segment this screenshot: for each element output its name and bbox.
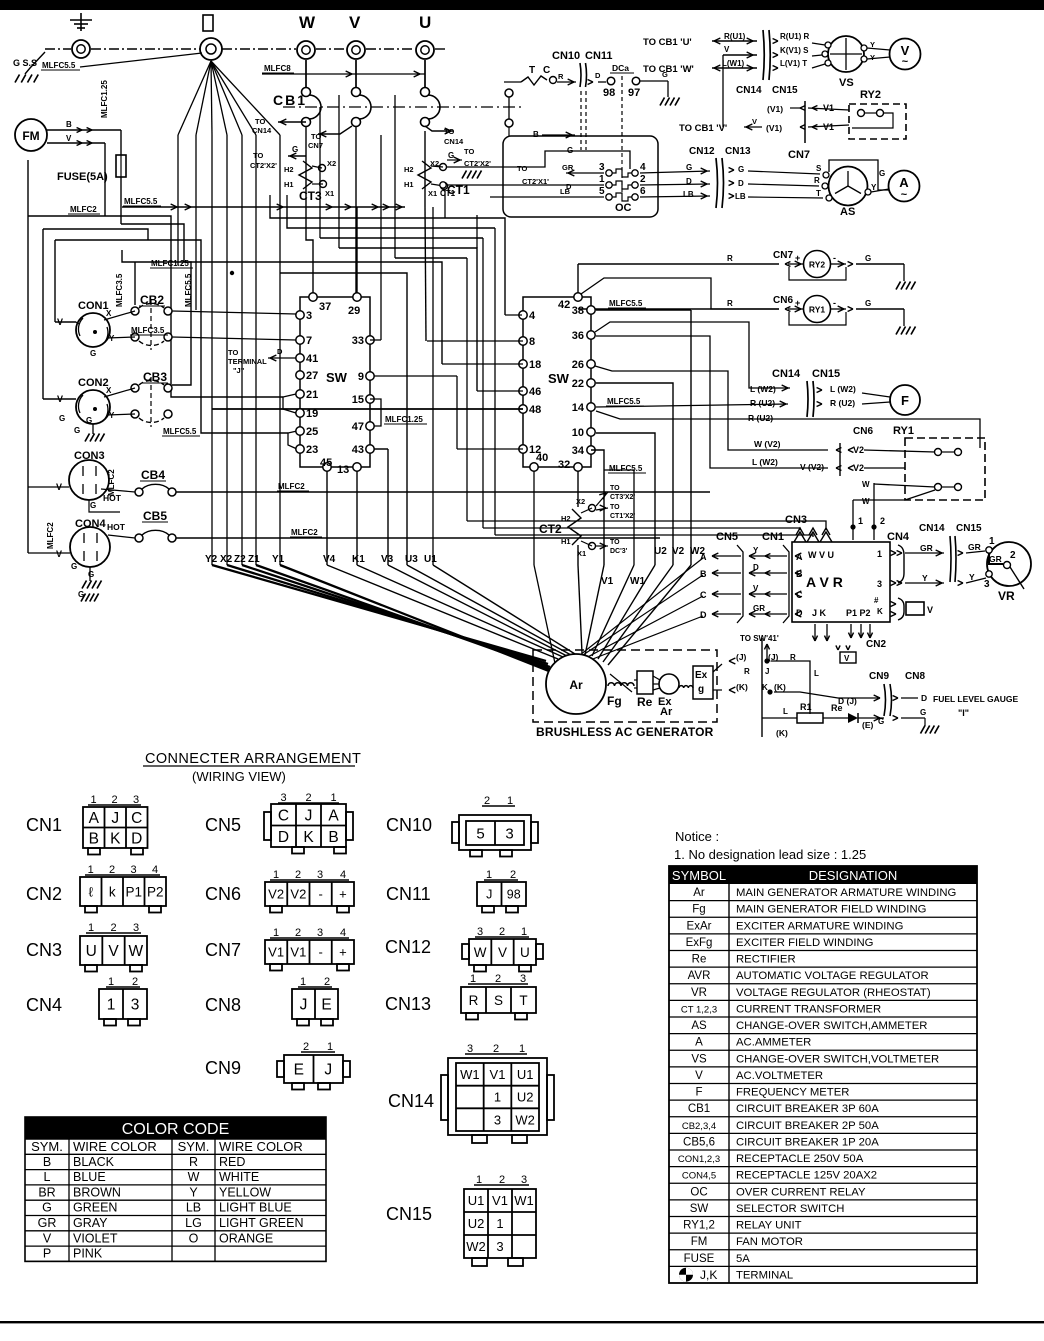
svg-text:V1: V1 <box>268 945 284 960</box>
svg-text:P1 P2: P1 P2 <box>846 608 871 618</box>
svg-text:TERMINAL: TERMINAL <box>228 357 267 366</box>
svg-text:15: 15 <box>352 394 364 406</box>
svg-text:D: D <box>921 693 927 703</box>
svg-text:3: 3 <box>877 579 882 589</box>
svg-text:CN15: CN15 <box>386 1204 432 1224</box>
svg-text:SW: SW <box>326 370 348 385</box>
svg-text:E: E <box>321 997 331 1014</box>
svg-text:G S.S: G S.S <box>13 58 37 68</box>
svg-text:Notice :: Notice : <box>675 829 719 844</box>
svg-text:RY1: RY1 <box>809 305 825 315</box>
svg-text:21: 21 <box>306 389 318 401</box>
svg-text:S: S <box>494 993 503 1008</box>
svg-text:J: J <box>111 810 119 827</box>
svg-text:D: D <box>738 179 744 188</box>
svg-text:B: B <box>66 120 72 129</box>
svg-text:1: 1 <box>507 795 513 807</box>
svg-text:ORANGE: ORANGE <box>219 1231 273 1245</box>
svg-text:2: 2 <box>295 869 301 881</box>
svg-text:DCa: DCa <box>612 63 629 73</box>
svg-text:U1: U1 <box>517 1067 534 1082</box>
svg-text:B: B <box>533 130 539 139</box>
svg-text:V: V <box>108 943 119 960</box>
svg-text:1. No designation lead size :: 1. No designation lead size : 1.25 <box>674 847 866 862</box>
svg-text:Y: Y <box>109 334 115 343</box>
svg-text:RY2: RY2 <box>860 89 881 101</box>
svg-text:Re: Re <box>692 954 707 966</box>
svg-text:TO: TO <box>610 485 620 492</box>
svg-text:CT1'X2': CT1'X2' <box>610 513 635 520</box>
svg-text:2: 2 <box>132 976 138 988</box>
svg-text:O: O <box>189 1231 199 1245</box>
svg-text:P2: P2 <box>147 884 164 899</box>
svg-text:B: B <box>89 830 99 847</box>
svg-text:R: R <box>469 993 479 1008</box>
svg-text:CN2: CN2 <box>866 639 886 650</box>
svg-text:2: 2 <box>484 795 490 807</box>
svg-text:1: 1 <box>273 869 279 881</box>
svg-text:3: 3 <box>133 922 139 934</box>
svg-text:TO CB1 'V': TO CB1 'V' <box>679 123 727 134</box>
svg-text:U2: U2 <box>468 1216 485 1231</box>
svg-text:W1: W1 <box>514 1193 534 1208</box>
svg-text:41: 41 <box>306 353 318 365</box>
svg-text:CON4: CON4 <box>75 518 106 530</box>
svg-text:3: 3 <box>494 1112 501 1127</box>
svg-text:R: R <box>744 667 750 676</box>
svg-text:R: R <box>558 72 564 81</box>
svg-text:V (V2): V (V2) <box>800 462 824 472</box>
svg-text:GR: GR <box>968 542 981 552</box>
svg-text:2: 2 <box>295 927 301 939</box>
svg-text:BRUSHLESS AC GENERATOR: BRUSHLESS AC GENERATOR <box>536 725 714 739</box>
svg-text:GR: GR <box>989 554 1002 564</box>
svg-text:L(W1): L(W1) <box>722 59 745 68</box>
svg-text:CB5,6: CB5,6 <box>683 1136 715 1148</box>
svg-text:D: D <box>753 563 759 572</box>
svg-text:CON2: CON2 <box>78 377 109 389</box>
svg-text:27: 27 <box>306 370 318 382</box>
svg-text:MLFC2: MLFC2 <box>107 469 116 496</box>
svg-text:J K: J K <box>812 608 827 618</box>
svg-text:G: G <box>738 165 744 174</box>
svg-text:34: 34 <box>572 445 585 457</box>
svg-text:2: 2 <box>303 1041 309 1053</box>
svg-text:MLFC1.25: MLFC1.25 <box>151 259 189 268</box>
svg-text:Ar: Ar <box>693 887 705 899</box>
svg-text:G: G <box>292 145 298 154</box>
svg-text:CB2: CB2 <box>140 293 164 307</box>
svg-text:MLFC8: MLFC8 <box>264 64 291 73</box>
svg-text:T: T <box>816 189 821 198</box>
svg-text:RECTIFIER: RECTIFIER <box>736 954 796 966</box>
svg-text:TO: TO <box>610 539 620 546</box>
svg-text:+: + <box>339 945 347 960</box>
svg-text:40: 40 <box>536 452 548 464</box>
svg-text:1: 1 <box>88 922 94 934</box>
svg-text:A: A <box>796 552 803 562</box>
svg-text:48: 48 <box>529 404 541 416</box>
svg-text:MLFC2: MLFC2 <box>70 205 97 214</box>
svg-text:Re: Re <box>637 695 653 709</box>
svg-text:37: 37 <box>319 301 331 313</box>
svg-text:B: B <box>43 1155 51 1169</box>
svg-text:U1: U1 <box>468 1193 485 1208</box>
svg-text:CN5: CN5 <box>205 815 241 835</box>
svg-text:G: G <box>71 562 77 571</box>
svg-text:CT1: CT1 <box>440 189 456 198</box>
svg-text:V: V <box>695 1070 703 1082</box>
svg-text:G: G <box>865 299 871 308</box>
svg-text:R: R <box>814 176 820 185</box>
svg-text:D: D <box>278 829 289 846</box>
svg-text:L: L <box>44 1170 51 1184</box>
svg-text:LB: LB <box>186 1201 201 1215</box>
svg-text:1: 1 <box>470 973 476 985</box>
svg-text:RELAY UNIT: RELAY UNIT <box>736 1220 802 1232</box>
svg-text:CN12: CN12 <box>689 146 715 157</box>
svg-text:98: 98 <box>507 888 521 902</box>
svg-text:CON3: CON3 <box>74 450 105 462</box>
svg-text:10: 10 <box>572 427 584 439</box>
svg-text:GR: GR <box>753 604 765 613</box>
svg-text:W2: W2 <box>466 1239 486 1254</box>
svg-text:HOT: HOT <box>107 522 126 532</box>
svg-text:R: R <box>727 254 733 263</box>
svg-text:K: K <box>762 683 768 692</box>
svg-text:PINK: PINK <box>73 1247 103 1261</box>
svg-text:L: L <box>783 707 788 716</box>
svg-text:TO: TO <box>253 151 263 160</box>
svg-text:2: 2 <box>109 864 115 876</box>
svg-text:GR: GR <box>562 163 574 172</box>
svg-text:2: 2 <box>499 926 505 938</box>
svg-text:ExAr: ExAr <box>687 920 712 932</box>
svg-text:CN8: CN8 <box>905 671 925 682</box>
svg-text:TERMINAL: TERMINAL <box>736 1269 793 1281</box>
svg-text:LG: LG <box>185 1216 202 1230</box>
svg-text:CT3: CT3 <box>299 189 322 203</box>
svg-text:2: 2 <box>305 792 311 804</box>
svg-text:R(U1): R(U1) <box>724 32 746 41</box>
svg-text:VS: VS <box>839 77 854 89</box>
svg-text:P: P <box>43 1247 51 1261</box>
svg-text:V2: V2 <box>290 887 306 902</box>
svg-text:G: G <box>88 570 94 579</box>
svg-text:V: V <box>753 584 759 593</box>
svg-text:MLFC2: MLFC2 <box>278 482 305 491</box>
svg-text:2: 2 <box>493 1043 499 1055</box>
svg-text:GR: GR <box>38 1216 57 1230</box>
svg-text:H2: H2 <box>284 165 294 174</box>
svg-text:CN11: CN11 <box>386 884 431 904</box>
svg-text:G: G <box>90 349 96 358</box>
svg-text:W: W <box>862 497 870 506</box>
svg-text:2: 2 <box>110 922 116 934</box>
svg-text:CN7: CN7 <box>773 250 793 261</box>
svg-text:CN15: CN15 <box>956 523 982 534</box>
svg-text:X2: X2 <box>576 497 585 506</box>
svg-text:J: J <box>765 667 769 676</box>
svg-text:X2: X2 <box>430 159 439 168</box>
svg-text:CN14: CN14 <box>736 85 762 96</box>
svg-text:Z1: Z1 <box>248 554 260 565</box>
svg-text:V1: V1 <box>823 103 834 113</box>
svg-text:X: X <box>106 309 112 318</box>
svg-text:BLACK: BLACK <box>73 1155 115 1169</box>
svg-text:W: W <box>474 945 487 960</box>
svg-text:4: 4 <box>529 310 536 322</box>
svg-text:3: 3 <box>133 794 139 806</box>
svg-text:23: 23 <box>306 444 318 456</box>
svg-text:W V U: W V U <box>808 550 834 560</box>
svg-text:V1: V1 <box>490 1067 506 1082</box>
svg-text:V: V <box>57 394 63 404</box>
svg-text:1: 1 <box>107 997 116 1014</box>
svg-text:CN15: CN15 <box>772 85 798 96</box>
svg-text:#: # <box>874 596 879 605</box>
svg-text:K: K <box>877 607 883 616</box>
svg-text:CN14: CN14 <box>444 137 464 146</box>
svg-text:MLFC5.5: MLFC5.5 <box>124 197 158 206</box>
svg-text:T: T <box>519 993 527 1008</box>
svg-text:X2: X2 <box>220 554 233 565</box>
svg-text:CN3: CN3 <box>26 940 62 960</box>
svg-text:CT3'X2': CT3'X2' <box>610 494 635 501</box>
svg-text:Ar: Ar <box>660 706 673 718</box>
svg-text:CON1: CON1 <box>78 300 109 312</box>
svg-text:P1: P1 <box>125 884 142 899</box>
svg-text:L(V1) T: L(V1) T <box>780 59 807 68</box>
svg-text:OC: OC <box>615 202 632 214</box>
svg-text:4: 4 <box>340 869 346 881</box>
svg-text:MLFC1.25: MLFC1.25 <box>385 415 423 424</box>
svg-text:C: C <box>543 65 550 76</box>
svg-text:2: 2 <box>324 976 330 988</box>
svg-text:Ar: Ar <box>569 678 583 692</box>
svg-text:V2: V2 <box>672 546 685 557</box>
svg-text:L (W2): L (W2) <box>750 384 776 394</box>
svg-text:J,K: J,K <box>700 1268 717 1282</box>
svg-text:J: J <box>324 1062 332 1079</box>
svg-text:OC: OC <box>690 1186 707 1198</box>
svg-text:L: L <box>814 669 819 678</box>
svg-text:G: G <box>879 169 885 178</box>
svg-text:D: D <box>700 610 707 620</box>
svg-text:CIRCUIT BREAKER 2P 50A: CIRCUIT BREAKER 2P 50A <box>736 1120 879 1132</box>
svg-text:CN11: CN11 <box>585 50 613 62</box>
svg-text:Y1: Y1 <box>272 554 285 565</box>
svg-text:CN9: CN9 <box>869 671 889 682</box>
svg-text:W: W <box>862 480 870 489</box>
svg-text:3: 3 <box>306 310 312 322</box>
svg-text:K(V1) S: K(V1) S <box>780 46 809 55</box>
svg-text:(K): (K) <box>776 728 788 738</box>
svg-text:B: B <box>796 569 803 579</box>
svg-text:A: A <box>89 810 100 827</box>
svg-text:V1: V1 <box>601 576 614 587</box>
svg-text:22: 22 <box>572 378 584 390</box>
svg-text:3: 3 <box>477 926 483 938</box>
svg-text:Re: Re <box>831 703 843 713</box>
svg-text:A V R: A V R <box>806 574 843 590</box>
svg-text:FUSE: FUSE <box>684 1253 715 1265</box>
svg-text:W: W <box>129 943 144 960</box>
svg-text:MLFC1.25: MLFC1.25 <box>100 80 109 118</box>
svg-text:G: G <box>920 708 926 717</box>
svg-text:2: 2 <box>640 174 646 185</box>
svg-text:CN14: CN14 <box>252 126 272 135</box>
svg-text:(J): (J) <box>736 652 747 662</box>
svg-text:U: U <box>86 943 97 960</box>
svg-text:3: 3 <box>130 864 136 876</box>
svg-text:VOLTAGE REGULATOR (RHEOSTAT): VOLTAGE REGULATOR (RHEOSTAT) <box>736 987 931 999</box>
svg-text:SYMBOL: SYMBOL <box>672 868 726 883</box>
svg-text:CN5: CN5 <box>716 531 738 543</box>
svg-text:k: k <box>109 884 116 899</box>
svg-text:C: C <box>700 590 707 600</box>
svg-text:RECEPTACLE 125V 20AX2: RECEPTACLE 125V 20AX2 <box>736 1170 877 1182</box>
svg-text:CN12: CN12 <box>385 937 431 957</box>
svg-text:W1: W1 <box>460 1067 480 1082</box>
svg-text:BR: BR <box>38 1185 55 1199</box>
svg-text:1: 1 <box>521 926 527 938</box>
svg-text:MLFC5.5: MLFC5.5 <box>609 299 643 308</box>
svg-text:C: C <box>278 807 289 824</box>
svg-text:CN4: CN4 <box>26 995 62 1015</box>
svg-text:E: E <box>294 1062 304 1079</box>
svg-text:Y: Y <box>922 573 928 583</box>
svg-text:5: 5 <box>599 186 605 197</box>
svg-text:Y: Y <box>870 40 875 49</box>
svg-text:VR: VR <box>691 987 707 999</box>
svg-text:FM: FM <box>22 129 39 143</box>
svg-text:Z2: Z2 <box>234 554 246 565</box>
svg-text:1: 1 <box>519 1043 525 1055</box>
svg-text:K: K <box>110 830 121 847</box>
svg-text:CHANGE-OVER SWITCH,VOLTMETER: CHANGE-OVER SWITCH,VOLTMETER <box>736 1053 939 1065</box>
svg-text:(K): (K) <box>774 682 786 692</box>
svg-text:43: 43 <box>352 444 364 456</box>
svg-text:V4: V4 <box>323 554 336 565</box>
svg-text:1: 1 <box>273 927 279 939</box>
svg-text:COLOR CODE: COLOR CODE <box>122 1121 230 1138</box>
svg-text:MAIN GENERATOR ARMATURE WINDIN: MAIN GENERATOR ARMATURE WINDING <box>736 887 956 899</box>
svg-text:CT 1,2,3: CT 1,2,3 <box>681 1004 717 1015</box>
svg-text:WIRE COLOR: WIRE COLOR <box>219 1139 303 1154</box>
svg-text:CN7: CN7 <box>788 149 810 161</box>
svg-text:26: 26 <box>572 359 584 371</box>
svg-text:LB: LB <box>560 187 571 196</box>
svg-text:2: 2 <box>510 869 516 881</box>
svg-text:-: - <box>318 887 322 902</box>
svg-text:S: S <box>816 164 822 173</box>
svg-text:SELECTOR SWITCH: SELECTOR SWITCH <box>736 1203 844 1215</box>
svg-text:4: 4 <box>152 864 158 876</box>
svg-text:Y: Y <box>109 411 115 420</box>
svg-text:+: + <box>339 887 347 902</box>
svg-text:G: G <box>59 414 65 423</box>
svg-text:DESIGNATION: DESIGNATION <box>809 868 898 883</box>
svg-text:U2: U2 <box>517 1090 534 1105</box>
svg-text:AC.AMMETER: AC.AMMETER <box>736 1037 811 1049</box>
svg-text:AS: AS <box>840 206 855 218</box>
svg-text:J: J <box>305 807 313 824</box>
svg-text:WIRE COLOR: WIRE COLOR <box>73 1139 157 1154</box>
svg-text:1: 1 <box>476 1174 482 1186</box>
svg-text:32: 32 <box>558 459 570 471</box>
svg-text:SYM.: SYM. <box>178 1139 210 1154</box>
svg-text:SW: SW <box>690 1203 709 1215</box>
svg-text:G: G <box>90 501 96 510</box>
svg-text:V: V <box>43 1231 52 1245</box>
svg-text:R: R <box>189 1155 198 1169</box>
svg-text:(E): (E) <box>862 720 874 730</box>
svg-text:G: G <box>42 1201 52 1215</box>
svg-text:V: V <box>57 317 63 327</box>
svg-text:CN4: CN4 <box>887 531 910 543</box>
svg-text:CT2'X2': CT2'X2' <box>250 161 277 170</box>
svg-text:SYM.: SYM. <box>31 1139 63 1154</box>
svg-text:A: A <box>328 807 339 824</box>
svg-text:VIOLET: VIOLET <box>73 1231 118 1245</box>
svg-text:U1: U1 <box>424 554 437 565</box>
svg-text:V: V <box>844 654 850 663</box>
svg-text:38: 38 <box>572 305 584 317</box>
svg-text:3: 3 <box>131 997 140 1014</box>
svg-text:MLFC3.5: MLFC3.5 <box>115 273 124 307</box>
svg-text:(K): (K) <box>736 682 748 692</box>
svg-text:1: 1 <box>989 536 995 547</box>
svg-text:3: 3 <box>984 579 990 590</box>
svg-text:6: 6 <box>640 186 646 197</box>
svg-text:3: 3 <box>505 825 513 842</box>
svg-text:F: F <box>901 393 909 408</box>
svg-text:R (U2): R (U2) <box>830 398 855 408</box>
svg-text:98: 98 <box>603 87 615 99</box>
svg-text:CURRENT TRANSFORMER: CURRENT TRANSFORMER <box>736 1003 881 1015</box>
svg-text:3: 3 <box>599 162 605 173</box>
svg-text:TO: TO <box>444 127 454 136</box>
svg-text:1: 1 <box>90 794 96 806</box>
svg-text:7: 7 <box>306 335 312 347</box>
svg-text:T: T <box>529 65 535 76</box>
svg-text:LB: LB <box>735 192 746 201</box>
svg-text:LIGHT BLUE: LIGHT BLUE <box>219 1201 292 1215</box>
svg-text:RECEPTACLE 250V 50A: RECEPTACLE 250V 50A <box>736 1153 864 1165</box>
svg-text:K: K <box>303 829 314 846</box>
svg-text:29: 29 <box>348 305 360 317</box>
svg-text:MLFC5.5: MLFC5.5 <box>42 61 76 70</box>
svg-text:CN6: CN6 <box>205 884 241 904</box>
svg-text:RY2: RY2 <box>809 260 825 270</box>
svg-text:D: D <box>595 71 601 80</box>
svg-text:g: g <box>698 684 704 695</box>
svg-text:R (U2): R (U2) <box>748 413 773 423</box>
svg-text:Y: Y <box>189 1185 198 1199</box>
svg-text:3: 3 <box>467 1043 473 1055</box>
svg-text:Fg: Fg <box>607 694 622 708</box>
svg-text:TO: TO <box>517 164 527 173</box>
svg-text:CON1,2,3: CON1,2,3 <box>678 1154 720 1165</box>
svg-text:CT2: CT2 <box>539 522 562 536</box>
svg-text:CN1: CN1 <box>26 815 62 835</box>
svg-text:18: 18 <box>529 359 541 371</box>
svg-text:L (W2): L (W2) <box>830 384 856 394</box>
svg-text:A: A <box>695 1037 703 1049</box>
svg-text:X1: X1 <box>428 189 437 198</box>
svg-text:GREEN: GREEN <box>73 1201 117 1215</box>
